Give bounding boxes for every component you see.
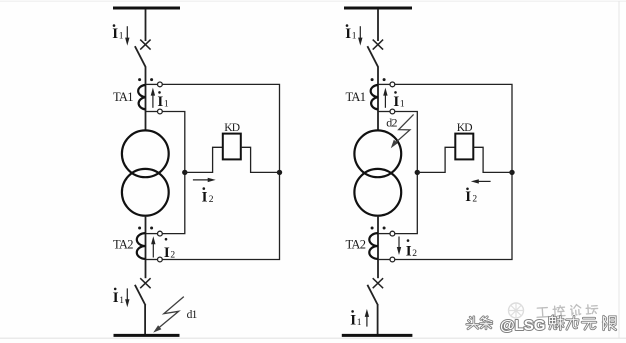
svg-text:I: I xyxy=(393,94,399,110)
wire: busbar to breaker (L) xyxy=(145,9,147,41)
svg-text:TA2: TA2 xyxy=(346,238,366,252)
svg-text:I: I xyxy=(164,245,170,261)
svg-text:I: I xyxy=(406,244,412,260)
svg-text:KD: KD xyxy=(224,122,240,134)
label d2 xyxy=(386,116,397,130)
svg-text:I: I xyxy=(157,94,163,110)
label I1 secondary (R): letter I xyxy=(393,94,399,110)
label KD (L) xyxy=(224,122,240,134)
page frame right edge xyxy=(618,1,620,338)
label I1 load bottom (R): subscript 1 xyxy=(357,318,362,328)
junction node outer (R) xyxy=(509,170,514,175)
TA2 terminals (L) xyxy=(158,231,163,262)
TA2 secondary stubs (L) xyxy=(146,234,158,260)
busbar bottom (R) xyxy=(342,334,413,337)
CT TA2 polarity dots (R) xyxy=(371,227,386,230)
breaker QF2-R: x contact mark xyxy=(373,278,383,288)
svg-text:I: I xyxy=(202,189,208,205)
svg-text:1: 1 xyxy=(119,31,124,41)
label TA2 (R) xyxy=(346,238,366,252)
label I1 source top (L): letter I xyxy=(112,26,118,42)
arrow: differential current I2 right (L) xyxy=(193,178,216,182)
svg-text:2: 2 xyxy=(412,249,417,259)
power transformer T winding 2 (L) xyxy=(122,169,169,216)
svg-text:2: 2 xyxy=(472,194,477,204)
label I1 secondary (L): dot above I xyxy=(158,91,161,94)
wire: bridge left (R) xyxy=(417,147,455,172)
CT TA1 polarity dots (L) xyxy=(138,78,153,81)
svg-text:1: 1 xyxy=(119,296,124,306)
wire: breaker to transformer (L) xyxy=(145,66,147,130)
CT TA1 coil (L) xyxy=(138,85,145,110)
arrow: I1 source current down (L) xyxy=(125,26,129,45)
junction node inner (R) xyxy=(415,170,420,175)
breaker QF2-L: x contact mark xyxy=(140,278,150,288)
arrow: I1 load current down (L) xyxy=(125,288,129,307)
fault d2 lightning arrow xyxy=(391,114,414,148)
TA2 terminals (R) xyxy=(390,231,395,262)
label I1 source top (R): subscript 1 xyxy=(352,31,357,41)
CT TA2 coil (L) xyxy=(137,233,146,259)
CT TA2 polarity dots (L) xyxy=(138,227,153,230)
label I2 secondary (R): letter I xyxy=(406,244,412,260)
wire: busbar to breaker (R) xyxy=(377,9,379,41)
watermark text: toutiao headline xyxy=(467,316,616,334)
label I1 secondary (R): subscript 1 xyxy=(400,100,405,110)
wire: breaker to busbar bottom (L) xyxy=(144,305,146,336)
svg-text:1: 1 xyxy=(164,100,169,110)
svg-text:I: I xyxy=(113,290,119,306)
svg-text:KD: KD xyxy=(457,122,473,134)
label I2 secondary (L): subscript 2 xyxy=(170,250,175,260)
page frame top edge xyxy=(0,0,626,2)
faint watermark text: gong-kong-lun-tan xyxy=(536,303,598,317)
label I2 secondary (L): dot above I xyxy=(165,238,168,241)
label I1 source top (L): subscript 1 xyxy=(119,31,124,41)
svg-text:I: I xyxy=(465,189,471,205)
wire: transformer to TA2 (R) xyxy=(377,216,379,279)
arrow: differential current I2 left (R) xyxy=(471,179,491,183)
breaker QF1-R: x contact mark xyxy=(373,40,383,50)
arrow: I1 load current up (R) xyxy=(365,309,369,327)
svg-text:TA2: TA2 xyxy=(113,238,133,252)
svg-text:2: 2 xyxy=(170,250,175,260)
wire: TA1 top terminal to outer node (L) xyxy=(162,84,279,259)
busbar bottom (L) xyxy=(114,334,180,337)
breaker QF1-L: blade xyxy=(135,46,146,67)
breaker QF2-R: blade xyxy=(367,285,378,306)
fault d1 lightning arrow xyxy=(153,297,184,333)
TA1 secondary stubs (L) xyxy=(146,84,158,111)
busbar top (R) xyxy=(344,7,412,10)
label I2 mid (L): subscript 2 xyxy=(209,195,214,205)
label I1 load bottom (R): letter I xyxy=(350,312,356,328)
label I1 secondary (L): letter I xyxy=(157,94,163,110)
svg-text:1: 1 xyxy=(400,100,405,110)
TA1 terminals (R) xyxy=(390,82,395,114)
svg-text:1: 1 xyxy=(352,31,357,41)
power transformer T winding 2 (R) xyxy=(354,169,401,216)
svg-text:I: I xyxy=(345,26,351,42)
arrow: TA2 secondary current I2 down (R) xyxy=(397,237,401,256)
breaker QF1-R: blade xyxy=(367,46,378,67)
svg-text:d1: d1 xyxy=(187,309,198,321)
label I2 mid (R): subscript 2 xyxy=(472,194,477,204)
CT TA1 polarity dots (R) xyxy=(371,78,386,81)
label I1 load bottom (L): dot above I xyxy=(114,288,117,291)
wire: TA1 bottom terminal to inner node (R) xyxy=(395,112,418,234)
breaker QF1-L: x contact mark xyxy=(140,40,150,50)
label I2 secondary (R): subscript 2 xyxy=(412,249,417,259)
label TA2 (L) xyxy=(113,238,133,252)
power transformer T winding 1 (L) xyxy=(122,130,169,177)
label I2 mid (R): dot above I xyxy=(466,188,469,191)
label I1 load bottom (L): letter I xyxy=(113,290,119,306)
svg-text:@LSG: @LSG xyxy=(500,317,545,334)
junction node outer (L) xyxy=(277,170,282,175)
label I1 secondary (L): subscript 1 xyxy=(164,100,169,110)
junction node inner (L) xyxy=(182,170,187,175)
label TA1 (R) xyxy=(346,90,366,104)
svg-text:TA1: TA1 xyxy=(113,90,133,104)
label I2 secondary (R): dot above I xyxy=(407,239,410,242)
wire: bridge right (L) xyxy=(241,147,280,172)
wire: breaker to busbar bottom (R) xyxy=(377,305,379,336)
label I2 secondary (L): letter I xyxy=(164,245,170,261)
svg-text:d2: d2 xyxy=(386,116,397,130)
svg-text:I: I xyxy=(112,26,118,42)
svg-text:TA1: TA1 xyxy=(346,90,366,104)
label TA1 (L) xyxy=(113,90,133,104)
label I1 load bottom (L): subscript 1 xyxy=(119,296,124,306)
wire: TA1 bottom terminal to inner node (L) xyxy=(162,112,185,234)
label I2 mid (L): dot above I xyxy=(203,187,206,190)
label I1 source top (L): dot above I xyxy=(113,24,116,27)
faint watermark: forum logo xyxy=(509,303,524,318)
CT TA1 coil (R) xyxy=(371,85,378,110)
arrow: TA1 secondary current I1 up (L) xyxy=(151,88,155,108)
page frame bottom edge xyxy=(0,337,626,339)
power transformer T winding 1 (R) xyxy=(354,130,401,177)
breaker QF2-L: blade xyxy=(135,285,146,306)
wire: bridge right (R) xyxy=(473,147,512,172)
wire: bridge left (L) xyxy=(185,147,223,172)
label KD (R) xyxy=(457,122,473,134)
CT TA2 coil (R) xyxy=(369,233,378,259)
label I1 load bottom (R): dot above I xyxy=(351,310,354,313)
TA1 terminals (L) xyxy=(158,82,163,114)
label I2 mid (R): letter I xyxy=(465,189,471,205)
wire: breaker to transformer (R) xyxy=(377,66,379,130)
wire: TA1 top terminal to outer node (R) xyxy=(395,84,512,259)
arrow: TA1 secondary current I1 up (R) xyxy=(383,88,387,108)
label I1 secondary (R): dot above I xyxy=(394,91,397,94)
label I1 source top (R): dot above I xyxy=(346,24,349,27)
relay KD box (R) xyxy=(455,134,473,160)
label I1 source top (R): letter I xyxy=(345,26,351,42)
busbar top (L) xyxy=(113,7,180,10)
arrow: I1 source current down (R) xyxy=(358,26,362,45)
svg-text:1: 1 xyxy=(357,318,362,328)
label d1 xyxy=(187,309,198,321)
TA1 secondary stubs (R) xyxy=(378,84,390,111)
wire: transformer to TA2 (L) xyxy=(145,216,147,279)
TA2 secondary stubs (R) xyxy=(378,234,390,260)
svg-text:2: 2 xyxy=(209,195,214,205)
label I2 mid (L): letter I xyxy=(202,189,208,205)
arrow: TA2 secondary current I2 up (L) xyxy=(151,236,155,257)
svg-text:I: I xyxy=(350,312,356,328)
relay KD box (L) xyxy=(223,134,241,160)
